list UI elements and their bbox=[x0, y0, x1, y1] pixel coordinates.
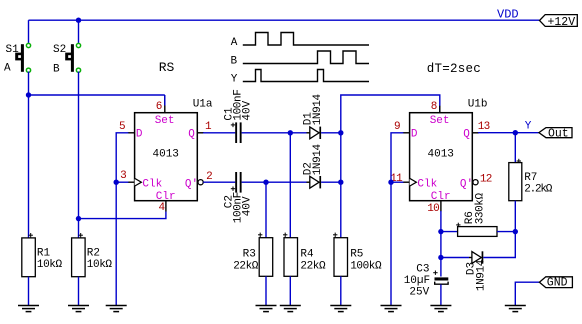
wire node Y to R7 bbox=[514, 133, 516, 163]
svg-text:100kΩ: 100kΩ bbox=[350, 261, 382, 273]
pin circle S1 top bbox=[26, 43, 30, 47]
wire R3 to ground bbox=[265, 276, 267, 305]
ground under U1b column bbox=[381, 306, 402, 312]
resistor R6 bbox=[458, 227, 497, 237]
svg-text:VDD: VDD bbox=[497, 8, 519, 22]
svg-text:12: 12 bbox=[480, 174, 492, 186]
power flag +12V bbox=[540, 15, 578, 29]
output flag Out bbox=[539, 127, 572, 140]
svg-text:D: D bbox=[136, 129, 143, 141]
svg-text:9: 9 bbox=[394, 121, 401, 133]
svg-text:R7: R7 bbox=[524, 172, 537, 184]
op-amp U1a box 4013 bbox=[135, 113, 198, 201]
svg-text:Set: Set bbox=[430, 115, 450, 127]
junction node X at D3 bbox=[438, 255, 443, 260]
svg-text:B: B bbox=[53, 63, 60, 75]
wire R3 column bbox=[265, 182, 267, 238]
svg-text:Clk: Clk bbox=[417, 179, 437, 191]
wire diode column to R5 and U1b Set bbox=[341, 95, 440, 238]
polarity + of R7 bbox=[517, 159, 521, 163]
svg-text:2.2kΩ: 2.2kΩ bbox=[524, 184, 553, 196]
polarity + of C2 bbox=[231, 187, 235, 191]
ground under R5 bbox=[330, 306, 351, 312]
svg-text:R2: R2 bbox=[87, 247, 100, 259]
clock triangle U1b bbox=[410, 178, 417, 186]
pin stub Q U1a bbox=[197, 132, 204, 134]
wire R7 bottom to node X2 bbox=[514, 201, 516, 232]
svg-text:10: 10 bbox=[427, 203, 439, 215]
svg-text:Y: Y bbox=[231, 74, 238, 86]
wire U1a Q to C1 bbox=[203, 132, 235, 134]
ground under R4 bbox=[280, 306, 301, 312]
pin circle S2 bottom bbox=[76, 68, 80, 72]
svg-text:+12V: +12V bbox=[548, 16, 576, 29]
svg-text:Clk: Clk bbox=[142, 179, 162, 191]
wire Set stub blue part U1a bbox=[164, 95, 166, 106]
svg-text:Q': Q' bbox=[185, 179, 198, 191]
waveform trace B bbox=[243, 51, 369, 64]
svg-text:10µF: 10µF bbox=[404, 275, 430, 287]
wire R5 to ground bbox=[340, 276, 342, 305]
ground under U1a column bbox=[106, 306, 127, 312]
op-amp U1b box 4013 bbox=[410, 113, 473, 201]
svg-text:6: 6 bbox=[156, 101, 163, 113]
svg-text:1N914: 1N914 bbox=[312, 143, 324, 175]
svg-text:A: A bbox=[4, 62, 11, 74]
pin stub Clr U1b bbox=[440, 201, 442, 212]
output bubble Q' U1b bbox=[473, 180, 478, 185]
resistor R4 bbox=[284, 238, 298, 277]
wire R2 to ground bbox=[78, 277, 80, 306]
pushbutton S2 body bbox=[65, 44, 74, 72]
wire D2 cathode to mid column bbox=[321, 181, 341, 183]
wire R4 column bbox=[289, 133, 291, 238]
wire U1a Clk to ground column bbox=[116, 181, 128, 183]
svg-text:Out: Out bbox=[548, 127, 569, 140]
wire U1b Clk to ground column bbox=[391, 181, 403, 183]
capacitor C3 bbox=[435, 277, 449, 284]
wire S2 bottom to R2 (node B) bbox=[78, 72, 80, 238]
svg-text:3: 3 bbox=[120, 170, 127, 182]
wire U1b D to ground column bbox=[391, 133, 403, 306]
junction Clk column U1a bbox=[114, 180, 119, 185]
svg-text:U1a: U1a bbox=[193, 99, 213, 111]
polarity + of C3 bbox=[433, 271, 437, 275]
capacitor C2 bbox=[235, 172, 241, 193]
wire C3 to ground bbox=[440, 285, 442, 306]
wire GND flag bbox=[515, 282, 539, 305]
svg-text:40V: 40V bbox=[241, 100, 253, 120]
svg-text:RS: RS bbox=[159, 60, 175, 75]
polarity + of R6 bbox=[456, 223, 460, 227]
polarity + of R2 bbox=[79, 233, 83, 237]
polarity + of R4 bbox=[283, 233, 287, 237]
wire node X to R6 bbox=[441, 231, 458, 233]
pin circle S2 top bbox=[76, 43, 80, 47]
svg-text:8: 8 bbox=[431, 101, 438, 113]
polarity + of R3 bbox=[258, 233, 262, 237]
wire S1 bottom to R1 (node A) bbox=[28, 72, 30, 238]
pin stub Set U1b bbox=[439, 106, 441, 113]
svg-text:Y: Y bbox=[525, 120, 532, 132]
wire C1 to D1 anode bbox=[242, 132, 307, 134]
junction node R (C2/D2/R3) bbox=[263, 180, 268, 185]
wire U1a D to ground column bbox=[116, 133, 128, 306]
svg-text:Q': Q' bbox=[460, 179, 473, 191]
resistor R1 bbox=[22, 238, 36, 277]
pushbutton S1 body bbox=[15, 44, 24, 72]
junction node P (C1/D1/R4) bbox=[288, 130, 293, 135]
diode D3 bbox=[472, 251, 483, 263]
svg-text:Q: Q bbox=[188, 129, 195, 141]
waveform trace Y bbox=[243, 70, 369, 82]
wire U1a Q' to C2 bbox=[203, 181, 235, 183]
svg-text:10kΩ: 10kΩ bbox=[37, 259, 63, 271]
junction R7/R6/D3 (node X2) bbox=[513, 229, 518, 234]
wire R1 to ground bbox=[28, 277, 30, 306]
pin stub Clk U1a bbox=[128, 181, 135, 183]
junction node Y bbox=[513, 130, 518, 135]
svg-text:B: B bbox=[231, 55, 238, 67]
pin stub D U1b bbox=[403, 132, 410, 134]
wire node A to U1a Set bbox=[29, 94, 165, 96]
junction node A bbox=[26, 92, 31, 97]
resistor R5 bbox=[334, 238, 348, 277]
diode D2 bbox=[310, 176, 321, 188]
ground under R3 bbox=[256, 306, 277, 312]
svg-text:22kΩ: 22kΩ bbox=[300, 261, 326, 273]
pin stub Clk U1b bbox=[403, 181, 410, 183]
wire U1b Clr down to C3 (node X) bbox=[440, 211, 442, 277]
clock triangle U1a bbox=[135, 178, 142, 186]
svg-text:1N914: 1N914 bbox=[475, 259, 487, 291]
svg-text:R1: R1 bbox=[37, 247, 51, 259]
pin stub D U1a bbox=[128, 132, 135, 134]
svg-text:GND: GND bbox=[547, 277, 568, 290]
svg-text:25V: 25V bbox=[409, 286, 429, 298]
svg-text:R4: R4 bbox=[300, 249, 314, 261]
wire S2 top to rail bbox=[78, 20, 80, 44]
junction node B bbox=[76, 216, 81, 221]
svg-text:4013: 4013 bbox=[428, 149, 454, 161]
svg-text:1N914: 1N914 bbox=[312, 93, 324, 125]
pin stub Set U1a bbox=[164, 95, 166, 113]
resistor R2 bbox=[72, 238, 86, 277]
waveform trace A bbox=[243, 33, 369, 46]
diode D1 bbox=[310, 127, 321, 139]
wire D1 cathode to mid column bbox=[321, 132, 341, 134]
ground under R1 bbox=[18, 306, 39, 312]
capacitor C1 bbox=[235, 122, 241, 143]
ground flag GND bbox=[539, 277, 572, 290]
junction D1 output bbox=[338, 130, 343, 135]
polarity + of R1 bbox=[29, 233, 33, 237]
svg-text:2: 2 bbox=[206, 171, 213, 183]
junction node X at R6 bbox=[438, 229, 443, 234]
svg-text:Q: Q bbox=[463, 129, 470, 141]
lead D3 anode bbox=[469, 257, 472, 259]
svg-text:4013: 4013 bbox=[153, 149, 179, 161]
svg-text:A: A bbox=[231, 37, 238, 49]
resistor R7 bbox=[509, 163, 522, 201]
pin stub Clr U1a bbox=[165, 201, 167, 212]
wire VDD top rail bbox=[29, 19, 540, 21]
svg-text:330kΩ: 330kΩ bbox=[474, 192, 486, 224]
pin circle S1 bottom bbox=[26, 68, 30, 72]
svg-text:S1: S1 bbox=[6, 44, 20, 56]
wire R4 to ground bbox=[289, 276, 291, 305]
svg-text:Set: Set bbox=[155, 115, 175, 127]
svg-text:C3: C3 bbox=[416, 264, 429, 276]
polarity + of R5 bbox=[333, 233, 337, 237]
svg-text:22kΩ: 22kΩ bbox=[233, 261, 259, 273]
junction D2 output bbox=[338, 180, 343, 185]
svg-text:R3: R3 bbox=[243, 249, 256, 261]
wire node X to D3 anode bbox=[441, 257, 469, 259]
svg-text:S2: S2 bbox=[53, 44, 66, 56]
lead D1 anode bbox=[307, 132, 310, 134]
pin stub Q U1b bbox=[472, 132, 479, 134]
svg-text:1: 1 bbox=[205, 121, 212, 133]
ground symbol at GND flag bbox=[505, 306, 526, 312]
ground under C3 bbox=[430, 306, 451, 312]
svg-text:D: D bbox=[411, 129, 418, 141]
svg-text:40V: 40V bbox=[241, 196, 253, 216]
wire C2 to D2 anode bbox=[242, 181, 307, 183]
ground under R2 bbox=[68, 306, 89, 312]
lead D2 anode bbox=[307, 181, 310, 183]
polarity + of C1 bbox=[231, 123, 235, 127]
wire node B to U1a Clr bbox=[79, 212, 166, 219]
wire S1 top to rail bbox=[28, 20, 30, 44]
output bubble Q' U1a bbox=[198, 180, 203, 185]
svg-text:10kΩ: 10kΩ bbox=[87, 259, 113, 271]
svg-text:13: 13 bbox=[478, 121, 490, 133]
svg-text:4: 4 bbox=[159, 202, 166, 214]
junction on VDD rail above S2 bbox=[76, 18, 81, 23]
wire D3 cathode up to node X2 bbox=[483, 232, 515, 258]
svg-text:5: 5 bbox=[119, 121, 126, 133]
wire U1b Q to Out flag bbox=[478, 132, 539, 134]
svg-text:dT=2sec: dT=2sec bbox=[427, 62, 481, 76]
resistor R3 bbox=[259, 238, 273, 277]
svg-text:R5: R5 bbox=[350, 249, 363, 261]
wire R6 to node X2 bbox=[497, 231, 515, 233]
svg-text:U1b: U1b bbox=[468, 99, 488, 111]
junction Clk column U1b bbox=[388, 180, 393, 185]
